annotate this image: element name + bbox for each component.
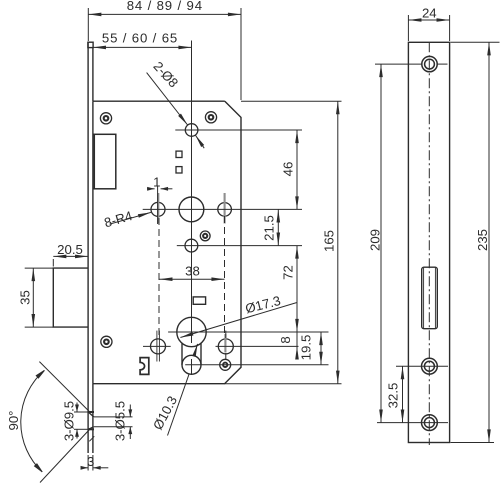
faceplate (edge view, left vertical strip) bbox=[88, 42, 93, 453]
hole below follower bbox=[185, 239, 198, 252]
small square hole lower bbox=[176, 167, 182, 173]
svg-text:35: 35 bbox=[18, 290, 33, 305]
dimension 38 bbox=[159, 278, 224, 280]
svg-text:209: 209 bbox=[368, 229, 383, 251]
retainer clip bbox=[140, 358, 149, 375]
dashed centreline right spindle to lower hole bbox=[224, 216, 226, 336]
dimension 235 bbox=[451, 42, 500, 442]
centreline through 2-diam8 hole bbox=[175, 129, 302, 131]
dimension 3-diam5.5 bbox=[129, 405, 131, 440]
dimension 1 (slot width) bbox=[147, 188, 172, 190]
strike plate screw hole top bbox=[422, 56, 437, 71]
svg-text:84 / 89 / 94: 84 / 89 / 94 bbox=[127, 0, 203, 13]
svg-text:1: 1 bbox=[153, 175, 160, 190]
centreline cylinder lower circle bbox=[185, 364, 328, 366]
dimension 3 (faceplate thickness) bbox=[83, 455, 109, 471]
dimension 21.5 bbox=[277, 209, 279, 245]
dimension 20.5 bbox=[53, 256, 88, 266]
spindle hole left bbox=[151, 202, 165, 216]
latch bolt protruding through faceplate bbox=[53, 268, 88, 327]
svg-text:32.5: 32.5 bbox=[386, 383, 401, 409]
small rectangular hole above cylinder bbox=[193, 297, 205, 304]
centreline lower holes row right segment bbox=[216, 345, 299, 347]
euro profile cylinder hole bbox=[177, 317, 206, 374]
leader diam10.3 bbox=[168, 344, 198, 436]
dimension 19.5 bbox=[320, 332, 322, 365]
dimension 165 bbox=[337, 101, 339, 384]
svg-text:235: 235 bbox=[475, 229, 490, 251]
countersunk fixing hole section on faceplate bbox=[74, 412, 133, 441]
screw post bottom-left bbox=[101, 336, 112, 347]
centreline hole below follower bbox=[177, 245, 302, 247]
svg-text:165: 165 bbox=[322, 230, 337, 252]
svg-text:90°: 90° bbox=[6, 411, 21, 431]
svg-text:3: 3 bbox=[87, 454, 94, 469]
dimension 46 bbox=[296, 130, 298, 209]
lock case outline with chamfered right corners bbox=[93, 101, 241, 384]
dimension 24 bbox=[408, 15, 449, 41]
grey slot bars through spindle holes bbox=[158, 193, 225, 353]
svg-text:19.5: 19.5 bbox=[299, 335, 314, 361]
svg-text:20.5: 20.5 bbox=[57, 242, 83, 257]
screw post top-right bbox=[205, 112, 216, 123]
extension of case bottom edge to 165 dim bbox=[225, 383, 342, 385]
svg-text:24: 24 bbox=[422, 6, 437, 21]
dimension 3-diam9.5 bbox=[76, 403, 78, 439]
svg-text:8: 8 bbox=[278, 336, 293, 343]
strike plate centreline dashed bbox=[428, 42, 430, 445]
dashed centreline left spindle to lower hole bbox=[158, 218, 160, 335]
vertical centreline through follower / backset line bbox=[191, 41, 193, 344]
dimension 209 bbox=[380, 64, 382, 423]
dimension 72 bbox=[296, 246, 298, 332]
lower hole right bbox=[218, 339, 233, 354]
strike plate outline (right) bbox=[408, 42, 449, 442]
svg-text:72: 72 bbox=[281, 265, 296, 280]
svg-text:3-Ø5.5: 3-Ø5.5 bbox=[113, 401, 128, 441]
screw post bottom-right bbox=[220, 359, 231, 370]
strike plate bolt cutout bbox=[422, 267, 438, 329]
screw post centre bbox=[200, 231, 210, 241]
strike plate lower screw crosshairs bbox=[396, 365, 448, 367]
centreline follower row + extension to 46/21.5 dims bbox=[143, 208, 302, 210]
svg-text:46: 46 bbox=[281, 162, 296, 177]
dimension 55 / 60 / 65 bbox=[93, 46, 192, 48]
dimension 8 bbox=[296, 332, 298, 346]
spindle hole right bbox=[218, 203, 232, 217]
vertical tick cylinder lower circle bbox=[191, 359, 193, 375]
vertical tick through spindle left + 1-dim extension bbox=[157, 187, 159, 225]
svg-text:3-Ø9.5: 3-Ø9.5 bbox=[61, 401, 76, 441]
90 degree swing arc bbox=[21, 362, 90, 483]
centreline cylinder horizontal bbox=[168, 331, 328, 333]
svg-text:55 / 60 / 65: 55 / 60 / 65 bbox=[102, 31, 178, 46]
lower hole left bbox=[151, 339, 166, 354]
dimension 32.5 bbox=[402, 366, 404, 422]
strike plate top screw crosshair bbox=[375, 63, 423, 65]
strike plate screw hole middle bbox=[422, 358, 438, 374]
svg-text:38: 38 bbox=[185, 264, 200, 279]
leader 8-R4 bbox=[110, 212, 151, 224]
small square hole upper bbox=[176, 151, 182, 157]
dimension 35 bbox=[25, 268, 54, 327]
follower recess rectangle on case left edge bbox=[93, 134, 94, 189]
svg-text:21.5: 21.5 bbox=[262, 215, 277, 241]
follower hub circle bbox=[179, 197, 204, 222]
screw post top-left bbox=[100, 113, 111, 124]
hole 2-diam8 bbox=[185, 124, 198, 137]
centreline lower holes row left segment bbox=[143, 345, 171, 347]
vertical tick lower hole left bbox=[156, 331, 158, 362]
leader diam17.3 bbox=[180, 303, 296, 338]
dimension 84 / 89 / 94 bbox=[88, 8, 241, 100]
extension of case top edge to 165 dim bbox=[241, 100, 342, 102]
strike plate screw hole bottom bbox=[422, 415, 438, 431]
leader 2-diam8 bbox=[147, 73, 205, 149]
